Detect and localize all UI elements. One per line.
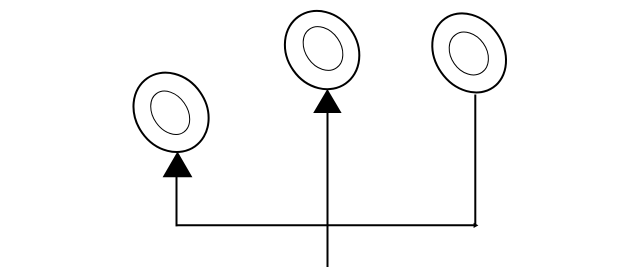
wire: horizontal bus	[176, 224, 476, 226]
node: right ring outer ellipse	[417, 0, 521, 107]
node: middle ring inner ellipse	[295, 19, 351, 78]
arrowhead: left (pointing up at left ring)	[163, 152, 193, 178]
wire: right vertical segment	[474, 95, 476, 227]
wire: left vertical segment	[176, 177, 178, 227]
node: left ring inner ellipse	[143, 84, 198, 142]
node: left ring outer ellipse	[118, 58, 224, 167]
node: right ring inner ellipse	[441, 25, 496, 83]
arrowhead: middle (pointing up at middle ring)	[313, 89, 341, 113]
wire: middle vertical segment	[327, 113, 329, 268]
node: middle ring outer ellipse	[270, 0, 375, 104]
arrowhead: small right-pointing terminator at bus right end	[474, 223, 479, 228]
